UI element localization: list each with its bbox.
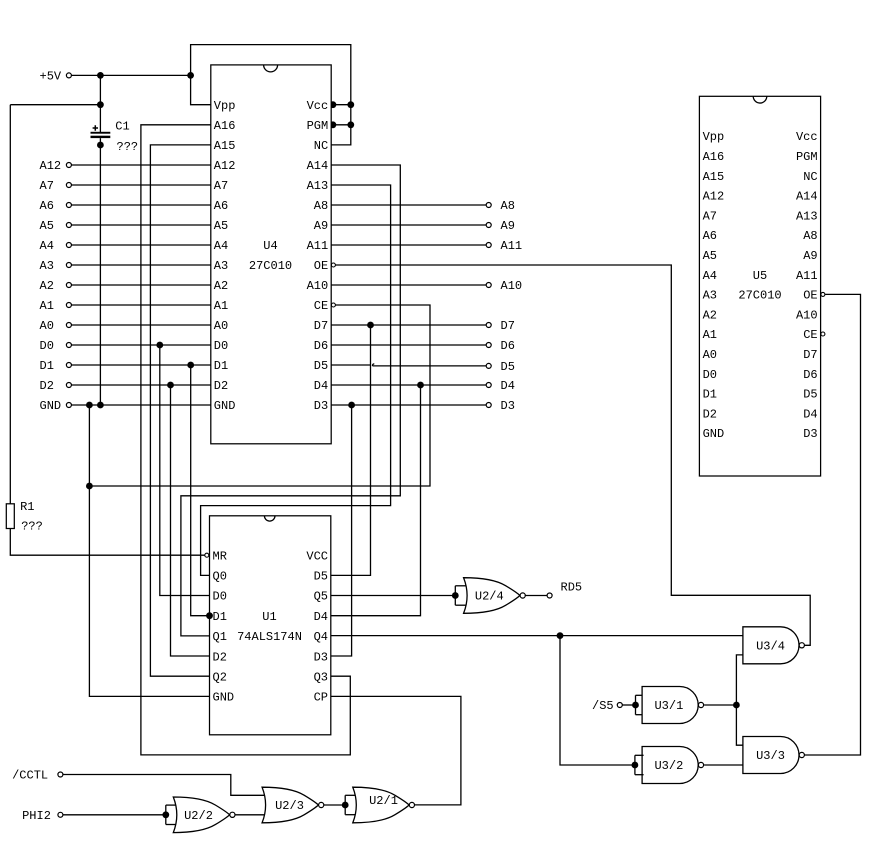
svg-text:A13: A13 [796,209,818,223]
node Q4 branch [557,632,564,639]
svg-text:A13: A13 [307,179,329,193]
svg-text:A10: A10 [796,308,818,322]
svg-text:74ALS174N: 74ALS174N [237,630,302,644]
wire Vcc pin stub [331,104,351,106]
node D0 row [156,342,163,349]
svg-text:A3: A3 [40,259,54,273]
svg-text:U2/3: U2/3 [275,799,304,813]
svg-text:Vcc: Vcc [796,130,818,144]
svg-text:D0: D0 [214,339,228,353]
wire U1 Q5 to U2/4 inputs [331,595,455,597]
nand-gate U3/2 [642,747,698,784]
svg-text:D5: D5 [314,570,328,584]
svg-text:D5: D5 [314,359,328,373]
wire A4 to U4 [72,244,211,246]
terminal GND (left) [66,403,71,408]
node Vcc loop [347,101,354,108]
svg-text:A0: A0 [214,319,228,333]
node +5V/C1 junction [97,72,104,79]
wire PGM pin stub [331,124,351,126]
svg-text:D7: D7 [314,319,328,333]
svg-text:/CCTL: /CCTL [12,769,48,783]
wire Q4 branch down to U3/2 [560,636,635,765]
terminal A1 (left) [66,303,71,308]
wire +5V down to C1 top [99,75,101,132]
node U1 D1 pin [206,612,213,619]
svg-text:D1: D1 [40,359,54,373]
svg-text:D0: D0 [40,339,54,353]
wire A12 to U4 [72,164,211,166]
svg-text:A12: A12 [703,190,725,204]
node Vcc pin [330,101,337,108]
svg-text:A7: A7 [703,209,717,223]
node PGM loop [347,121,354,128]
node U2/1 input tie [344,795,346,814]
wire A7 to U4 [72,184,211,186]
svg-text:Q5: Q5 [314,590,328,604]
wire +5V rail to Vpp loop corner [72,74,191,76]
svg-text:U5: U5 [753,269,767,283]
wire A5 to U4 [72,224,211,226]
node D1 row [187,362,194,369]
svg-text:U2/2: U2/2 [184,809,213,823]
EPROM U4 body [211,65,331,444]
svg-text:PHI2: PHI2 [22,809,51,823]
wire U4 A9 to terminal [331,224,486,226]
nor-gate U2/2 [173,797,229,833]
wire GND to U4 [72,404,211,406]
terminal A11 [486,243,491,248]
wire A2 to U4 [72,284,211,286]
wire U3/3 output to U5 OE [805,294,861,755]
svg-text:???: ??? [117,140,139,154]
wire U3/1 output to U3/4 and U3/3 [704,704,736,706]
svg-text:D1: D1 [213,610,227,624]
wire R1 to U1 MR [10,529,204,556]
nor-gate U2/1 [353,787,409,823]
terminal /S5 [617,703,622,708]
node U3/1 output branch [733,702,740,709]
svg-text:A16: A16 [214,119,236,133]
node GND / CE-net junction [86,483,93,490]
terminal D4 [486,383,491,388]
svg-text:A11: A11 [501,239,523,253]
wire U4 D6 to terminal [331,344,486,346]
node below C1 [97,142,104,149]
svg-text:OE: OE [803,289,817,303]
svg-text:D6: D6 [803,368,817,382]
svg-text:D3: D3 [314,650,328,664]
wire U4 D7 row [331,324,486,326]
terminal A12 (left) [66,163,71,168]
wire D0 net to U1 D0 [160,345,210,596]
svg-text:D3: D3 [501,399,515,413]
svg-text:R1: R1 [20,500,34,514]
svg-text:A6: A6 [214,199,228,213]
svg-text:PGM: PGM [796,150,818,164]
wire U1 Q4 to U3/4 input [331,635,743,637]
wire A6 to U4 [72,204,211,206]
svg-text:A1: A1 [40,299,54,313]
svg-text:A2: A2 [703,308,717,322]
svg-text:A4: A4 [214,239,228,253]
svg-text:A6: A6 [703,229,717,243]
terminal A0 (left) [66,323,71,328]
svg-text:U3/1: U3/1 [654,699,683,713]
svg-text:A14: A14 [796,190,818,204]
nor-gate U2/4 [464,578,520,614]
wire D2 to U4 [72,384,211,386]
svg-text:D4: D4 [803,407,817,421]
svg-text:Vpp: Vpp [214,99,236,113]
svg-text:GND: GND [703,427,725,441]
svg-text:D4: D4 [314,379,328,393]
node +5V/Vpp-loop junction [187,72,194,79]
svg-text:???: ??? [21,520,43,534]
svg-text:A3: A3 [214,259,228,273]
svg-text:A0: A0 [40,319,54,333]
svg-text:OE: OE [314,259,328,273]
terminal D1 (left) [66,363,71,368]
wire U2/3 output to U2/1 inputs [324,804,345,806]
svg-text:Q0: Q0 [213,570,227,584]
terminal D7 [486,323,491,328]
wire /CCTL to U2/3 upper input [63,775,267,796]
wire U4 D3 row [331,404,486,406]
svg-text:Vpp: Vpp [703,130,725,144]
svg-text:A10: A10 [307,279,329,293]
svg-text:U3/2: U3/2 [654,759,683,773]
svg-text:Q1: Q1 [213,630,227,644]
node D2 row [167,382,174,389]
terminal D6 [486,343,491,348]
svg-text:D5: D5 [803,388,817,402]
terminal A5 (left) [66,223,71,228]
svg-text:Q4: Q4 [314,630,328,644]
terminal D0 (left) [66,343,71,348]
wire A14 net (U1 Q1 to U4 A14) [181,165,400,636]
wire D2 net to U1 D2 [171,385,210,656]
svg-text:A1: A1 [214,299,228,313]
svg-text:A9: A9 [803,249,817,263]
wire /S5 to U3/1 inputs [622,704,635,706]
wire A13 net (U1 Q0 to U4 A13) [201,185,391,575]
terminal A8 [486,203,491,208]
U1 pin MR bubble [205,553,209,557]
wire D3 net down to U1 D3 [331,405,352,656]
svg-text:U2/1: U2/1 [369,794,398,808]
nor-gate U2/3 [262,787,318,823]
resistor R1 [9,105,11,504]
svg-text:A15: A15 [703,170,725,184]
svg-text:D2: D2 [214,379,228,393]
svg-text:U4: U4 [263,239,277,253]
svg-text:A9: A9 [501,219,515,233]
svg-text:A9: A9 [314,219,328,233]
nand-gate U3/1 [642,687,698,724]
terminal A10 [486,283,491,288]
svg-text:D0: D0 [213,590,227,604]
svg-text:MR: MR [213,549,227,563]
svg-text:VCC: VCC [306,549,328,563]
svg-text:D1: D1 [214,359,228,373]
terminal A2 (left) [66,283,71,288]
svg-text:D6: D6 [314,339,328,353]
svg-text:+5V: +5V [40,70,62,84]
svg-text:NC: NC [314,139,328,153]
wire D0 to U4 [72,344,211,346]
svg-text:Q2: Q2 [213,670,227,684]
svg-text:U3/3: U3/3 [756,749,785,763]
U4 pin CE bubble [331,303,335,307]
node U3/2 input tie [634,755,636,774]
svg-text:A2: A2 [214,279,228,293]
svg-text:D2: D2 [213,650,227,664]
wire U4 D4 row [331,384,486,386]
terminal A7 (left) [66,183,71,188]
svg-text:D4: D4 [314,610,328,624]
capacitor C1 [91,132,111,134]
node GND row / C1 branch junction [97,402,104,409]
terminal /CCTL [58,772,63,777]
wire U4 A11 to terminal [331,244,486,246]
svg-text:GND: GND [40,399,62,413]
svg-text:A0: A0 [703,348,717,362]
wire U2/4 output to RD5 [525,595,547,597]
svg-text:27C010: 27C010 [249,259,292,273]
U5 pin CE bubble [821,332,825,336]
wire U3/2 output to U3/3 lower input [704,764,743,766]
terminal RD5 [547,593,552,598]
svg-text:Vcc: Vcc [307,99,329,113]
svg-text:D3: D3 [314,399,328,413]
svg-text:CP: CP [314,691,328,705]
svg-text:A7: A7 [214,179,228,193]
svg-text:D4: D4 [501,379,515,393]
svg-text:CE: CE [803,328,817,342]
terminal A6 (left) [66,203,71,208]
svg-text:D7: D7 [501,319,515,333]
U4 pin OE bubble [331,263,335,267]
svg-text:A4: A4 [40,239,54,253]
svg-text:D0: D0 [703,368,717,382]
svg-text:D5: D5 [501,360,515,374]
svg-text:NC: NC [803,170,817,184]
svg-text:D6: D6 [501,339,515,353]
svg-text:C1: C1 [115,120,129,134]
svg-text:A2: A2 [40,279,54,293]
svg-text:A5: A5 [703,249,717,263]
svg-text:U2/4: U2/4 [475,590,504,604]
node PGM pin [330,121,337,128]
node PHI2 / U2/2 input tie [165,805,167,824]
node D4 row [417,382,424,389]
terminal D5 [486,363,491,368]
wire D1 net to U1 D1 [191,365,210,616]
node C1/R1-rail junction [97,101,104,108]
svg-text:27C010: 27C010 [738,289,781,303]
wire R1 top rail at y=105 [10,104,100,106]
node Q5 / U2/4 input tie [454,586,456,605]
svg-text:A12: A12 [214,159,236,173]
svg-text:D2: D2 [703,407,717,421]
EPROM U5 body [699,96,820,476]
svg-text:Q3: Q3 [314,670,328,684]
wire U2/2 output to U2/3 lower input [235,814,267,816]
wire A15 net (U4 A15 to U1 Q2) [150,145,210,676]
terminal D3 [486,403,491,408]
svg-text:A7: A7 [40,179,54,193]
svg-text:A11: A11 [796,269,818,283]
wire U4 D5 to terminal (with break at D7 net) [331,364,371,366]
svg-text:A3: A3 [703,289,717,303]
wire branch to U3/4 lower input [736,655,743,745]
svg-text:A16: A16 [703,150,725,164]
svg-text:U1: U1 [262,610,276,624]
svg-text:D2: D2 [40,379,54,393]
node D7 row [367,322,374,329]
terminal D2 (left) [66,383,71,388]
svg-text:A14: A14 [307,159,329,173]
svg-text:A4: A4 [703,269,717,283]
wire Vpp loop (U4 Vpp to Vcc/PGM/NC) [191,45,351,145]
svg-text:A12: A12 [40,159,62,173]
node GND row / GND-net junction [86,402,93,409]
svg-text:A11: A11 [307,239,329,253]
svg-text:GND: GND [214,399,236,413]
wire C1 bottom to GND row [99,138,101,405]
svg-text:A5: A5 [214,219,228,233]
wire D1 to U4 [72,364,211,366]
terminal PHI2 [58,812,63,817]
node D3 row [348,402,355,409]
svg-text:A1: A1 [703,328,717,342]
terminal A9 [486,223,491,228]
wire U1 CP to U2/1 output [331,696,461,805]
svg-text:A8: A8 [314,199,328,213]
svg-text:D7: D7 [803,348,817,362]
wire D4 net down to U1 D4 [331,385,421,616]
wire U4 A10 to terminal [331,284,486,286]
wire OE net (U4 OE to U3/4 output) [335,265,810,645]
svg-text:A15: A15 [214,139,236,153]
svg-text:D3: D3 [803,427,817,441]
svg-text:CE: CE [314,299,328,313]
node /S5 / U3/1 input tie [635,695,637,714]
wire A16 net (U4 A16 to U1 Q3) [141,125,350,755]
wire A3 to U4 [72,264,211,266]
wire A0 to U4 [72,324,211,326]
nand-gate U3/3 [743,737,799,774]
svg-text:/S5: /S5 [592,699,614,713]
wire PHI2 to U2/2 inputs [63,814,166,816]
wire U4 A8 to terminal [331,204,486,206]
svg-text:A8: A8 [501,199,515,213]
svg-text:RD5: RD5 [561,581,583,595]
wire A1 to U4 [72,304,211,306]
svg-text:A5: A5 [40,219,54,233]
terminal +5V [66,73,71,78]
svg-text:A6: A6 [40,199,54,213]
U5 pin OE bubble [821,292,825,296]
flip-flop U1 body [210,516,331,735]
svg-text:U3/4: U3/4 [756,640,785,654]
wire D7 net down to U1 D5 [331,325,371,575]
wire GND net down to U1 GND [89,405,209,696]
svg-text:GND: GND [213,691,235,705]
nand-gate U3/4 [743,627,799,664]
wire CE net (GND to U4 CE) [89,305,430,486]
terminal A3 (left) [66,263,71,268]
svg-text:PGM: PGM [307,119,329,133]
svg-text:D1: D1 [703,388,717,402]
svg-text:A8: A8 [803,229,817,243]
terminal A4 (left) [66,243,71,248]
svg-text:A10: A10 [501,279,523,293]
